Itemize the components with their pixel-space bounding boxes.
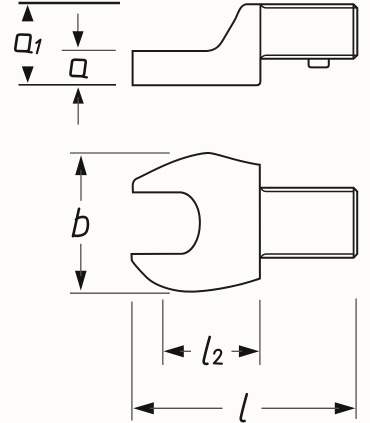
- label b: [73, 209, 88, 236]
- extension line l2 left: [162, 300, 164, 366]
- label l2: [204, 337, 210, 364]
- dimension b top line: [70, 152, 170, 154]
- shank bottom chamfer line: [261, 254, 354, 257]
- open-end head outline (top view): [132, 153, 260, 292]
- dimension a down arrow with stem: [77, 14, 79, 38]
- dimension l right arrow with shaft: [335, 402, 356, 414]
- shank outline (top view): [260, 188, 357, 258]
- dimension a1 top reference line: [19, 2, 121, 4]
- dimension a1 up arrow: [22, 5, 34, 22]
- label a1 subscript 1: [36, 40, 40, 54]
- side view bottom chamfer line: [261, 55, 357, 58]
- dimension b bottom line: [70, 292, 170, 294]
- dimension a1 down arrow: [22, 66, 34, 83]
- dimension l2 right arrow with shaft: [239, 345, 259, 357]
- dimension b up arrow with stem: [75, 155, 87, 175]
- label l: [241, 394, 247, 421]
- side view top chamfer line: [261, 5, 357, 8]
- label l2 subscript 2: [214, 350, 222, 364]
- dimension a reference line: [62, 49, 116, 51]
- shank top chamfer line: [261, 188, 354, 191]
- side view chamfer-start vertical: [352, 4, 354, 58]
- label a1: [15, 34, 31, 52]
- dimension a1/a bottom reference line: [19, 84, 117, 86]
- side view release tab: [309, 59, 329, 68]
- extension line l2 right: [259, 300, 261, 365]
- extension line l right: [355, 299, 357, 420]
- side view body outline: [133, 4, 358, 85]
- dimension l2 left arrow with shaft: [164, 345, 184, 357]
- dimension b down arrow with stem: [75, 271, 87, 291]
- label a: [70, 60, 86, 78]
- dimension l left arrow with shaft: [133, 402, 154, 414]
- side view internal face line: [259, 5, 261, 59]
- dimension a up arrow with stem: [73, 87, 84, 103]
- extension line l left: [131, 302, 133, 421]
- shank chamfer-start vertical: [353, 188, 355, 258]
